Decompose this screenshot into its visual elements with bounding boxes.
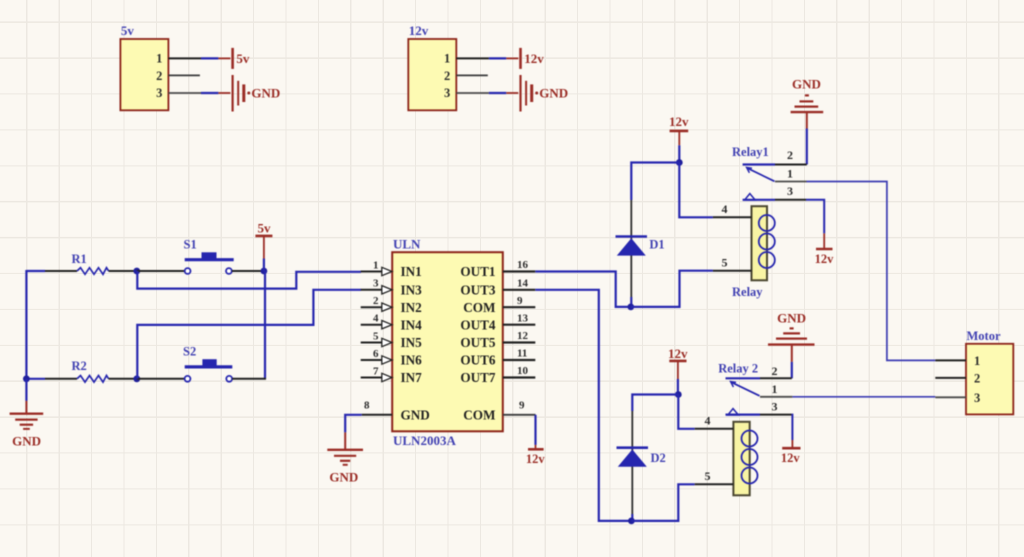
power symbol 12v feeding relay1 xyxy=(669,114,689,163)
junction node D2/OUT3/relay2-coil-bottom xyxy=(628,518,635,525)
wire junction to S1 left contact xyxy=(137,270,185,272)
relay contact Relay 2 xyxy=(718,362,792,416)
svg-text:GND: GND xyxy=(539,86,568,101)
wire relay1 pin3 to 12v xyxy=(806,200,824,234)
svg-text:IN7: IN7 xyxy=(401,370,423,385)
power symbol 5v xyxy=(233,48,250,69)
pin 4 relay1 coil stub xyxy=(713,202,752,217)
svg-text:1: 1 xyxy=(444,52,450,66)
wire OUT1 (pin16) to D1/relay1 node xyxy=(535,272,629,307)
junction node 12v/D2/relay2-coil xyxy=(675,391,682,398)
wire OUT3 (pin14) to D2/relay2 node xyxy=(535,290,629,521)
svg-text:Relay: Relay xyxy=(732,285,763,299)
svg-text:COM: COM xyxy=(463,407,496,422)
svg-text:5v: 5v xyxy=(258,221,272,236)
wire node R1 to ULN IN1 (jog) xyxy=(137,271,361,289)
svg-text:13: 13 xyxy=(517,312,529,324)
wire relay2 pin1 to motor pin3 xyxy=(792,396,935,398)
svg-text:IN2: IN2 xyxy=(401,300,423,315)
svg-text:1: 1 xyxy=(772,382,778,396)
svg-text:1: 1 xyxy=(974,354,980,368)
svg-text:1: 1 xyxy=(373,259,379,271)
wire pin 9 COM to 12v xyxy=(534,415,536,445)
pin 6 IN6 stub with input arrow xyxy=(361,348,392,364)
resistor R2 xyxy=(72,359,109,382)
pin 13 OUT4 stub xyxy=(503,312,536,324)
connector J1 "5v" xyxy=(120,23,168,110)
pin 5 IN5 stub with input arrow xyxy=(361,330,392,346)
svg-text:OUT7: OUT7 xyxy=(460,370,496,385)
junction node D1/OUT1/relay1-coil-bottom xyxy=(627,304,634,311)
svg-text:ULN2003A: ULN2003A xyxy=(393,433,456,448)
svg-text:3: 3 xyxy=(787,184,793,198)
diode D1 xyxy=(616,200,665,297)
wire junction to D1 cathode xyxy=(631,163,679,201)
wire pin 2 stub xyxy=(456,74,488,76)
pin 3 IN3 stub with input arrow xyxy=(361,278,392,294)
power symbol 12v feeding relay2 xyxy=(668,346,688,395)
pin 10 OUT7 stub xyxy=(503,365,536,377)
svg-text:D1: D1 xyxy=(649,238,664,252)
junction node 5v/S1 xyxy=(261,268,268,275)
svg-text:10: 10 xyxy=(517,365,529,377)
wire node R2 to ULN IN3 (jog) xyxy=(137,290,361,379)
svg-text:OUT3: OUT3 xyxy=(460,282,496,297)
wire R2 to S2 xyxy=(109,378,137,380)
svg-text:IN3: IN3 xyxy=(401,282,423,297)
svg-text:5: 5 xyxy=(722,256,728,270)
wire relay1 pin1 to motor pin1 xyxy=(807,182,936,361)
power symbol 12v at relay1 pin3 xyxy=(815,233,835,266)
wire 12v junction to relay2 coil pin 4 xyxy=(678,395,694,429)
pin 11 OUT6 stub xyxy=(503,348,536,360)
pin 2 motor stub xyxy=(935,377,966,379)
junction node 12v/D1/relay1-coil xyxy=(676,159,683,166)
svg-text:3: 3 xyxy=(373,278,379,290)
svg-text:9: 9 xyxy=(517,295,523,307)
svg-text:IN1: IN1 xyxy=(401,264,422,279)
wire junction to relay2 coil pin 5 xyxy=(631,484,694,521)
pin 1 motor stub xyxy=(935,359,966,361)
svg-text:GND: GND xyxy=(777,311,806,326)
svg-text:GND: GND xyxy=(401,407,430,422)
svg-text:3: 3 xyxy=(772,400,778,414)
junction node R2/S2/IN3 xyxy=(133,375,140,382)
pin 8 GND stub xyxy=(362,399,393,415)
svg-text:16: 16 xyxy=(517,259,529,271)
junction node R1/S1/IN1 xyxy=(133,268,140,275)
svg-text:3: 3 xyxy=(444,86,450,100)
op-amp U1 ULN2003A driver IC xyxy=(392,237,503,448)
svg-text:5v: 5v xyxy=(121,23,134,38)
svg-text:4: 4 xyxy=(722,202,728,216)
power symbol 12v below COM xyxy=(526,445,546,466)
pin 2 IN2 stub with input arrow xyxy=(361,295,392,311)
svg-text:12v: 12v xyxy=(524,51,544,66)
svg-text:GND: GND xyxy=(12,434,41,449)
wire relay2 pin3 to 12v xyxy=(791,415,794,440)
svg-text:3: 3 xyxy=(156,86,162,100)
svg-text:12v: 12v xyxy=(669,114,689,129)
svg-text:R2: R2 xyxy=(72,359,87,373)
svg-text:1: 1 xyxy=(156,52,162,66)
svg-text:9: 9 xyxy=(519,399,525,411)
svg-text:12v: 12v xyxy=(409,23,429,38)
svg-text:14: 14 xyxy=(517,277,529,289)
svg-text:2: 2 xyxy=(787,148,793,162)
wire R2 row left lead xyxy=(26,378,45,380)
relay coil Relay2 xyxy=(733,422,757,496)
wire left vertical bus xyxy=(25,270,27,379)
pin 7 IN7 stub with input arrow xyxy=(361,365,392,381)
power symbol 12v at relay2 pin3 xyxy=(781,440,801,465)
wire S1 right contact to 5v node xyxy=(232,270,265,272)
svg-text:12v: 12v xyxy=(781,451,801,465)
pin 14 OUT3 stub xyxy=(503,277,536,289)
ground symbol GND (rotated earth) xyxy=(233,75,281,112)
svg-text:12: 12 xyxy=(517,330,529,342)
svg-text:12v: 12v xyxy=(668,346,688,361)
ground symbol GND bottom-left xyxy=(10,379,44,449)
wire junction to relay1 coil pin 5 xyxy=(631,271,713,307)
pushbutton S2 xyxy=(183,345,232,382)
svg-text:R1: R1 xyxy=(72,252,87,266)
svg-text:2: 2 xyxy=(156,69,162,83)
power symbol 5v xyxy=(255,221,272,272)
svg-text:S2: S2 xyxy=(183,345,196,359)
resistor R1 xyxy=(72,252,109,274)
wire pin 1 to power rail xyxy=(456,57,489,59)
svg-text:Motor: Motor xyxy=(967,329,1001,343)
wire pin 3 to ground xyxy=(456,92,489,94)
svg-text:12v: 12v xyxy=(526,452,546,466)
ground symbol GND above relay1 xyxy=(791,77,824,165)
pin 12 OUT5 stub xyxy=(503,330,536,342)
relay coil Relay (relay1) xyxy=(732,206,775,299)
svg-text:2: 2 xyxy=(772,364,778,378)
svg-text:11: 11 xyxy=(517,348,527,360)
svg-text:S1: S1 xyxy=(184,238,197,252)
wire R1 row left lead xyxy=(26,270,45,272)
diode D2 xyxy=(617,411,666,514)
wire S2 right contact to 5v node vertical xyxy=(232,378,266,380)
svg-text:8: 8 xyxy=(364,399,370,411)
junction node left bus / R2 / ground xyxy=(23,375,30,382)
ground symbol GND (rotated earth) xyxy=(521,75,569,112)
pushbutton S1 xyxy=(184,238,234,274)
svg-text:ULN: ULN xyxy=(393,237,421,252)
svg-text:GND: GND xyxy=(329,470,358,485)
svg-text:OUT1: OUT1 xyxy=(460,264,495,279)
pin 5 relay1 coil stub xyxy=(713,256,752,271)
svg-text:GND: GND xyxy=(251,86,280,101)
ground symbol GND above relay2 xyxy=(768,311,815,379)
wire 12v junction to relay1 coil pin 4 xyxy=(679,163,713,218)
svg-text:7: 7 xyxy=(373,365,379,377)
pin 16 OUT1 stub xyxy=(503,259,536,271)
pin 4 IN4 stub with input arrow xyxy=(361,313,392,329)
power symbol 12v xyxy=(521,48,545,69)
svg-text:IN4: IN4 xyxy=(401,317,423,332)
pin 9 COM stub xyxy=(503,295,536,307)
connector J2 "12v" xyxy=(408,23,456,110)
svg-text:OUT5: OUT5 xyxy=(460,335,496,350)
svg-text:COM: COM xyxy=(463,300,496,315)
relay contact Relay1 xyxy=(732,145,807,200)
svg-text:OUT4: OUT4 xyxy=(460,317,496,332)
svg-text:5: 5 xyxy=(705,469,711,483)
wire pin 2 stub xyxy=(168,74,200,76)
svg-text:2: 2 xyxy=(974,371,980,385)
wire R1 to S1 xyxy=(109,270,137,272)
ground symbol GND below chip xyxy=(327,432,363,484)
svg-text:Relay 2: Relay 2 xyxy=(718,362,758,376)
svg-text:OUT6: OUT6 xyxy=(460,353,496,368)
svg-text:1: 1 xyxy=(787,167,793,181)
svg-text:12v: 12v xyxy=(815,252,835,266)
svg-text:4: 4 xyxy=(705,414,711,428)
svg-text:Relay1: Relay1 xyxy=(732,145,769,159)
pin 4 relay2 coil stub xyxy=(695,414,734,429)
pin 5 relay2 coil stub xyxy=(695,469,734,484)
wire D2 anode to junction xyxy=(631,514,633,521)
svg-text:IN6: IN6 xyxy=(401,353,423,368)
svg-text:4: 4 xyxy=(373,313,379,325)
svg-text:IN5: IN5 xyxy=(401,335,423,350)
wire pin 1 to power rail xyxy=(168,57,201,59)
svg-text:6: 6 xyxy=(373,348,379,360)
wire 5v node down to S2 right contact xyxy=(264,271,266,379)
svg-text:2: 2 xyxy=(444,69,450,83)
svg-text:5: 5 xyxy=(373,330,379,342)
wire pin 3 to ground xyxy=(168,92,201,94)
svg-text:3: 3 xyxy=(974,391,980,405)
wire pin 8 to ground xyxy=(345,415,362,433)
svg-text:GND: GND xyxy=(792,77,821,92)
svg-text:2: 2 xyxy=(373,295,379,307)
pin 3 motor stub xyxy=(935,396,966,398)
pin 9 COM bottom stub xyxy=(503,399,536,415)
wire D1 anode to junction xyxy=(630,297,632,307)
wire junction to S2 left contact xyxy=(137,378,185,380)
svg-text:5v: 5v xyxy=(236,51,250,66)
svg-text:D2: D2 xyxy=(651,451,666,465)
pin 1 IN1 stub with input arrow xyxy=(361,259,392,275)
connector Motor xyxy=(966,329,1013,414)
wire junction to D2 cathode xyxy=(632,395,678,412)
